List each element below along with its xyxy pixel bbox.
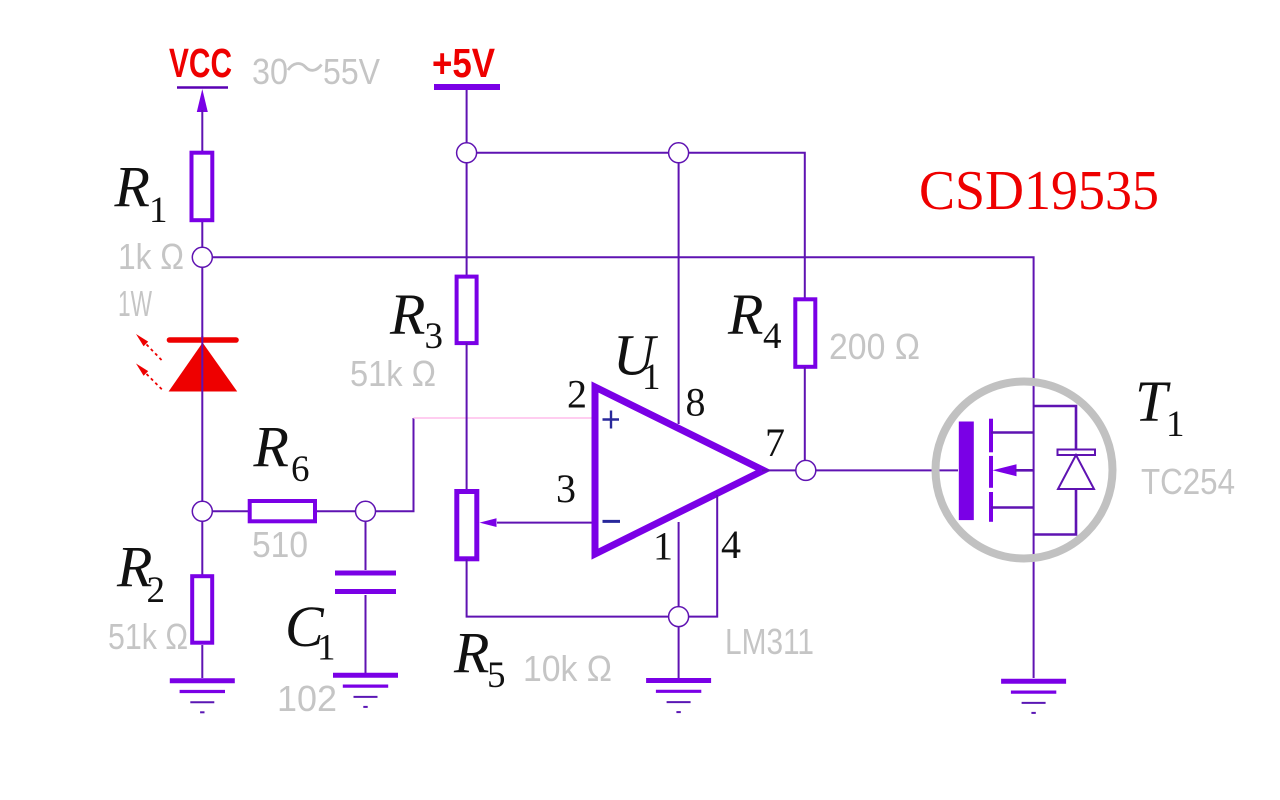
power symbol VCC [169, 40, 232, 88]
svg-text:R: R [389, 282, 425, 347]
wire LED to node B [201, 392, 203, 501]
wire op-amp output to node F [762, 469, 796, 471]
wire through LED [201, 336, 203, 392]
T1 drain stub [991, 431, 1034, 434]
svg-text:CSD19535: CSD19535 [919, 160, 1159, 222]
LED D1 [136, 334, 237, 392]
svg-text:1W: 1W [118, 283, 152, 324]
svg-text:1: 1 [642, 357, 661, 398]
wire R5 bottom to node G [467, 559, 668, 617]
svg-text:1: 1 [149, 190, 168, 231]
wire node C to C1 [365, 522, 367, 571]
wire node D to R3 [466, 163, 468, 275]
svg-text:7: 7 [765, 420, 785, 465]
wire node A to LED [201, 268, 203, 338]
capacitor C1 [335, 573, 396, 592]
svg-text:200 Ω: 200 Ω [829, 326, 920, 367]
svg-text:102: 102 [277, 678, 337, 719]
transistor T1 body circle [936, 382, 1113, 559]
node A junction R1/LED/long wire [192, 247, 212, 267]
svg-text:2: 2 [147, 570, 166, 611]
wire VCC arrow to R1 [197, 89, 208, 151]
svg-text:6: 6 [291, 449, 310, 490]
svg-text:510: 510 [252, 524, 308, 565]
wire node G to ground [678, 627, 680, 678]
node F junction output/R4/gate [796, 460, 816, 480]
svg-text:10k Ω: 10k Ω [523, 648, 612, 689]
wire R6 to node C [317, 510, 356, 512]
node D junction +5V/R3 [457, 143, 477, 163]
wire node E to R4 [689, 153, 805, 298]
T1 source stub with arrow [993, 464, 1034, 476]
svg-text:R: R [114, 155, 150, 220]
T1 bottom stub [991, 506, 1034, 509]
svg-text:R: R [727, 282, 763, 347]
node C junction R6/C1 [356, 501, 376, 521]
resistor R1 [192, 153, 213, 221]
resistor R2 [192, 576, 212, 643]
resistor R4 [795, 299, 815, 367]
svg-text:4: 4 [763, 316, 782, 357]
ground at T1 [1001, 681, 1066, 713]
svg-text:8: 8 [686, 380, 706, 425]
wire node B to R6 [212, 510, 248, 512]
ground at U1 [646, 681, 711, 713]
wire R4 to node F [804, 367, 806, 460]
svg-text:R: R [253, 415, 289, 480]
wire pin 4 to node G [689, 495, 717, 617]
node G junction pin1/pin4/R5 [669, 607, 689, 627]
T1 channel segments [989, 419, 993, 522]
wire C1 to ground [365, 595, 367, 673]
wire node F to T1 gate [816, 469, 958, 471]
wire node D to node E [477, 152, 669, 154]
wire R3 to R5 [466, 343, 468, 490]
op-amp U1 [595, 387, 764, 554]
svg-text:51k Ω: 51k Ω [108, 616, 188, 657]
wire node E to pin 8 [678, 163, 680, 424]
svg-text:1: 1 [1166, 404, 1185, 445]
svg-text:1: 1 [653, 524, 673, 569]
power symbol +5V [432, 40, 500, 87]
svg-text:1k Ω: 1k Ω [118, 236, 184, 277]
svg-text:4: 4 [721, 522, 741, 567]
ground at R2 [170, 681, 235, 713]
svg-text:3: 3 [556, 466, 576, 511]
svg-text:VCC: VCC [169, 40, 232, 86]
wire node B to R2 [201, 522, 203, 576]
wire R2 to ground [201, 645, 203, 678]
svg-text:55V: 55V [323, 51, 380, 92]
wire node A to T1 drain (top rail) [213, 257, 1034, 470]
svg-text:30: 30 [252, 51, 288, 92]
potentiometer R5 [457, 492, 477, 559]
resistor R3 [457, 277, 477, 344]
wire pin 1 to node G [678, 522, 680, 607]
svg-text:LM311: LM311 [725, 621, 814, 662]
wire node C up-leg to op-amp non-inverting input [376, 418, 593, 511]
ground at C1 [333, 675, 398, 707]
node E junction +5V/pin8 [669, 143, 689, 163]
svg-text:R: R [453, 621, 489, 686]
wire R1 to node A [201, 222, 203, 247]
svg-text:3: 3 [425, 316, 444, 357]
T1 body diode [1034, 406, 1095, 535]
label 30~55V [252, 51, 380, 92]
svg-text:5: 5 [487, 655, 506, 696]
svg-text:+5V: +5V [432, 40, 496, 86]
wire +5V to node D [466, 90, 468, 143]
wire T1 source to ground [1033, 470, 1035, 678]
svg-text:1: 1 [317, 628, 336, 669]
resistor R6 [250, 501, 315, 521]
svg-text:2: 2 [567, 372, 587, 417]
T1 gate bar [959, 422, 974, 521]
wire R5 wiper to op-amp inverting input [480, 518, 593, 527]
node B junction LED/R2/R6 [192, 501, 212, 521]
svg-text:51k Ω: 51k Ω [350, 353, 436, 394]
svg-text:TC254: TC254 [1141, 461, 1235, 502]
